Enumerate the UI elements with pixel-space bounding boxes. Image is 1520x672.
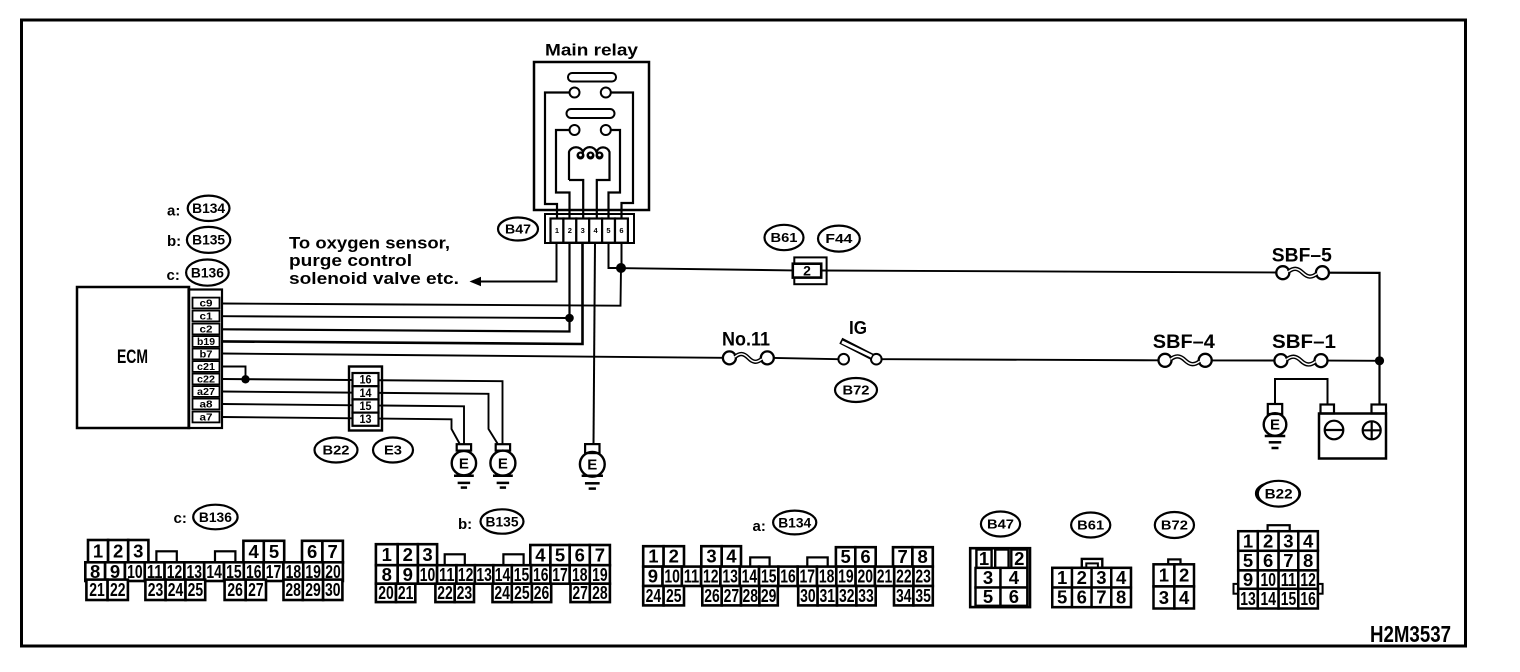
- svg-text:13: 13: [1240, 588, 1256, 609]
- svg-text:10: 10: [127, 561, 143, 582]
- svg-text:B61: B61: [1077, 517, 1104, 532]
- svg-text:E3: E3: [384, 442, 402, 457]
- svg-text:20: 20: [857, 566, 873, 587]
- svg-text:2: 2: [113, 541, 123, 562]
- connector B72 pinout oval: [1155, 512, 1194, 538]
- svg-text:solenoid valve etc.: solenoid valve etc.: [289, 269, 459, 288]
- svg-text:25: 25: [188, 579, 204, 600]
- svg-text:24: 24: [646, 585, 662, 606]
- svg-text:28: 28: [285, 579, 301, 600]
- svg-text:22: 22: [896, 566, 912, 587]
- connector B22 pinout tab: [1268, 525, 1290, 531]
- svg-text:6: 6: [619, 226, 623, 235]
- svg-text:35: 35: [915, 585, 931, 606]
- connector B22/E3 outer box: [349, 367, 382, 431]
- relay internal wire contact2-left to pin2: [556, 130, 570, 219]
- ground E at battery: [1268, 404, 1282, 414]
- svg-text:14: 14: [1260, 588, 1276, 609]
- svg-text:6: 6: [575, 544, 585, 565]
- svg-text:3: 3: [581, 226, 585, 235]
- connector B61 pinout row1 cells 1-4: [1052, 568, 1072, 588]
- fuse SBF-5: [1276, 266, 1289, 279]
- connector b B135 pinout top row cells 4-7: [530, 545, 550, 565]
- connector B22 pinout grid cells 1-16: [1238, 531, 1258, 551]
- ground E under main relay: [585, 444, 599, 453]
- svg-text:1: 1: [1159, 565, 1169, 586]
- svg-text:26: 26: [704, 585, 720, 606]
- svg-text:c21: c21: [197, 362, 215, 373]
- svg-text:Main relay: Main relay: [545, 42, 639, 60]
- wire SBF-1 to battery junction: [1328, 360, 1380, 362]
- svg-text:3: 3: [133, 541, 143, 562]
- connector B22/E3 pin 16: [353, 373, 379, 386]
- svg-text:1: 1: [93, 541, 103, 562]
- junction dot c21-c22: [241, 375, 249, 383]
- ground E left (E3): [457, 444, 471, 450]
- connector c B136 pinout top row cells 4-5: [243, 541, 263, 563]
- svg-text:4: 4: [1009, 567, 1020, 588]
- svg-text:SBF–5: SBF–5: [1272, 245, 1332, 267]
- wire SBF-5 to battery plus: [1329, 273, 1380, 405]
- connector a B134 pinout top row cells 3-4: [701, 546, 721, 566]
- svg-text:6: 6: [1077, 587, 1087, 608]
- svg-text:21: 21: [89, 579, 105, 600]
- connector a B134 pinout bottom row cells 26-29: [702, 586, 721, 605]
- svg-text:33: 33: [858, 585, 874, 606]
- svg-text:2: 2: [1077, 567, 1087, 588]
- svg-text:22: 22: [437, 582, 453, 603]
- svg-text:4: 4: [726, 546, 737, 567]
- oval F44: [818, 226, 860, 252]
- battery terminal tabs: [1321, 405, 1335, 414]
- svg-text:3: 3: [706, 546, 716, 567]
- relay MR main relay box: [534, 62, 649, 210]
- svg-text:18: 18: [819, 566, 835, 587]
- svg-text:4: 4: [1303, 530, 1314, 551]
- svg-text:15: 15: [1281, 588, 1297, 609]
- svg-text:23: 23: [457, 582, 473, 603]
- svg-text:8: 8: [1303, 550, 1313, 571]
- connector a B134 pinout middle row cells 9-23: [643, 567, 662, 586]
- wire B47 pin4 down to ground: [594, 243, 596, 444]
- svg-text:27: 27: [248, 579, 264, 600]
- connector B22 pinout side tabs: [1234, 584, 1239, 594]
- ground E right (E3): [496, 444, 510, 450]
- junction dot pin2-c1: [565, 314, 574, 323]
- ECM pin c22: [193, 374, 220, 385]
- wire junction down to ECM c9 row: [222, 268, 621, 306]
- oval E3 inline: [373, 438, 413, 463]
- svg-text:IG: IG: [849, 317, 867, 338]
- svg-text:a8: a8: [200, 400, 214, 411]
- oval B61: [765, 225, 804, 250]
- relay contact bar 2: [567, 109, 615, 118]
- svg-text:22: 22: [110, 579, 126, 600]
- svg-text:26: 26: [227, 579, 243, 600]
- svg-text:4: 4: [1116, 567, 1127, 588]
- connector B61 pinout oval: [1071, 513, 1110, 538]
- svg-text:2: 2: [1179, 565, 1189, 586]
- relay internal wire contact1-left to pin1: [545, 93, 570, 219]
- svg-text:7: 7: [595, 544, 605, 565]
- connector a B134 tab 2: [807, 557, 827, 566]
- svg-text:32: 32: [839, 585, 855, 606]
- svg-text:29: 29: [305, 579, 321, 600]
- relay contact 1 terminal circles: [570, 88, 580, 98]
- connector b B135 tab 1: [445, 554, 465, 565]
- svg-text:14: 14: [742, 566, 758, 587]
- svg-text:To oxygen sensor,: To oxygen sensor,: [289, 234, 450, 253]
- wire ECM c21 jumper to c22: [222, 367, 246, 378]
- wire junction to fuse F44: [626, 268, 793, 270]
- relay coil winding: [569, 147, 610, 218]
- svg-text:14: 14: [360, 388, 373, 400]
- svg-text:13: 13: [476, 564, 492, 585]
- connector B47 oval label: [498, 218, 538, 241]
- wire No.11 to IG switch: [774, 358, 838, 359]
- svg-text:2: 2: [1014, 548, 1024, 569]
- svg-text:B47: B47: [505, 221, 531, 236]
- fuse F44 number 2 box: [794, 257, 826, 284]
- connector a B134 pinout top row cells 5-6: [836, 547, 855, 566]
- wire B47 pin1 to oxygen sensor branch: [479, 243, 557, 282]
- svg-text:B61: B61: [771, 230, 798, 245]
- connector B72 pinout cells 1-4: [1154, 564, 1175, 586]
- battery plus terminal: [1363, 421, 1381, 439]
- svg-text:13: 13: [722, 566, 738, 587]
- svg-text:3: 3: [422, 544, 432, 565]
- ECM pin a27: [193, 386, 220, 397]
- svg-text:b19: b19: [197, 337, 215, 348]
- fuse SBF-1: [1274, 354, 1287, 367]
- svg-text:3: 3: [1096, 567, 1106, 588]
- svg-text:7: 7: [1096, 587, 1106, 608]
- wire B47 pin2 down to ECM c1/c2: [222, 243, 570, 332]
- ECM pin b7: [193, 349, 220, 360]
- ECM pin c21: [193, 361, 220, 372]
- connector B47 strip cells: [551, 219, 564, 243]
- connector B22/E3 pin 14: [353, 386, 379, 399]
- svg-text:28: 28: [742, 585, 758, 606]
- switch IG contacts: [838, 354, 849, 365]
- connector a B134 pinout bottom row cells 30-33: [798, 586, 817, 605]
- wire B47 pin6 to junction: [621, 243, 623, 264]
- wire SBF-4 to SBF-1: [1212, 359, 1274, 361]
- svg-text:12: 12: [1300, 569, 1316, 590]
- connector B47 pinout row1 cells: [976, 550, 991, 568]
- wire fuse F44 to SBF-5: [821, 271, 1276, 273]
- svg-text:9: 9: [1243, 569, 1253, 590]
- svg-text:B135: B135: [192, 232, 225, 248]
- wire ECM c22 row to right ground: [222, 379, 503, 444]
- svg-text:B47: B47: [987, 516, 1014, 531]
- svg-text:3: 3: [1283, 530, 1293, 551]
- svg-text:1: 1: [979, 548, 989, 569]
- svg-text:5: 5: [1243, 550, 1253, 571]
- svg-text:26: 26: [534, 582, 550, 603]
- svg-text:c1: c1: [200, 312, 214, 323]
- svg-text:1: 1: [1057, 567, 1067, 588]
- svg-text:6: 6: [1263, 550, 1273, 571]
- svg-text:15: 15: [761, 566, 777, 587]
- junction dot main relay feed: [616, 263, 626, 273]
- oval B22 inline: [315, 438, 358, 463]
- wire ECM a8 row to left ground: [222, 404, 464, 444]
- svg-text:5: 5: [555, 544, 565, 565]
- svg-text:30: 30: [800, 585, 816, 606]
- connector a B134 tab 1: [750, 557, 769, 566]
- connector c B136 tab 1: [156, 551, 176, 562]
- connector b B135 tab 2: [503, 554, 523, 565]
- svg-text:1: 1: [382, 544, 392, 565]
- relay contact 2 terminal circles: [570, 125, 580, 135]
- svg-text:B72: B72: [1161, 517, 1188, 532]
- connector B61 pinout outer box: [1052, 568, 1131, 607]
- svg-text:17: 17: [266, 561, 282, 582]
- svg-text:1: 1: [648, 546, 658, 567]
- svg-text:c:: c:: [174, 510, 187, 527]
- connector c B136 tab 2: [215, 551, 235, 562]
- svg-text:31: 31: [820, 585, 836, 606]
- connector c B136 pinout top row cells 1-3: [88, 540, 108, 563]
- svg-text:6: 6: [1009, 586, 1019, 607]
- connector c B136 pinout middle row cells 8-20: [85, 562, 105, 581]
- svg-text:ECM: ECM: [117, 347, 148, 368]
- wire ECM a7 row to left ground: [222, 417, 460, 444]
- connector a B134 pinout top row cells 7-8: [893, 547, 912, 566]
- svg-text:25: 25: [514, 582, 530, 603]
- connector b B135 pinout bottom row cells 24-26: [493, 584, 512, 602]
- svg-text:B136: B136: [191, 264, 224, 280]
- connector b B135 pinout bottom row cells 27-28: [571, 584, 590, 602]
- svg-text:6: 6: [860, 546, 870, 567]
- ECM pin c1: [193, 311, 220, 322]
- svg-text:24: 24: [494, 582, 510, 603]
- svg-text:E: E: [498, 455, 508, 472]
- connector B61 pinout tab: [1082, 559, 1103, 569]
- svg-text:4: 4: [535, 544, 546, 565]
- svg-text:7: 7: [1283, 550, 1293, 571]
- ECM pin c2: [193, 324, 220, 335]
- connector B22/E3 pin 15: [353, 399, 379, 412]
- svg-text:23: 23: [148, 579, 164, 600]
- svg-text:17: 17: [800, 566, 816, 587]
- connector a B134 pinout bottom row cells 24-25: [643, 586, 663, 605]
- junction dot battery feed: [1375, 356, 1384, 365]
- svg-text:2: 2: [1263, 530, 1273, 551]
- connector b B135 pinout bottom row cells 22-23: [435, 584, 454, 602]
- svg-text:E: E: [587, 457, 597, 474]
- svg-text:F44: F44: [825, 231, 853, 246]
- svg-text:11: 11: [684, 566, 700, 587]
- svg-text:B134: B134: [778, 514, 811, 530]
- wire ECM c1 row: [222, 316, 566, 318]
- wire battery minus to ground E: [1275, 379, 1328, 405]
- wire B47 pin5 to junction: [609, 243, 618, 268]
- svg-text:B22: B22: [323, 442, 350, 457]
- svg-text:a27: a27: [197, 387, 215, 398]
- svg-text:6: 6: [307, 541, 317, 562]
- svg-text:E: E: [459, 455, 469, 472]
- wire IG to SBF-4: [882, 359, 1159, 360]
- connector b B135 pinout bottom row cells 20-21: [376, 584, 396, 602]
- connector a B134 pinout bottom row cells 34-35: [894, 586, 913, 605]
- svg-text:20: 20: [378, 582, 394, 603]
- battery body: [1319, 414, 1386, 459]
- svg-text:3: 3: [983, 567, 993, 588]
- fuse No.11: [723, 351, 736, 364]
- svg-text:28: 28: [592, 582, 608, 603]
- connector b B135 pinout middle row cells 8-19: [376, 565, 398, 584]
- svg-text:12: 12: [703, 566, 719, 587]
- connector c B136 pinout top row cells 6-7: [302, 541, 322, 563]
- connector B61 pinout row2 cells 5-8: [1052, 588, 1072, 608]
- connector c B136 pinout bottom row cells 26-27: [225, 580, 246, 600]
- svg-text:13: 13: [360, 414, 372, 426]
- svg-text:16: 16: [780, 566, 796, 587]
- svg-text:B136: B136: [199, 509, 232, 525]
- svg-text:a7: a7: [200, 413, 214, 424]
- svg-text:2: 2: [403, 544, 413, 565]
- svg-text:2: 2: [568, 226, 572, 235]
- svg-text:16: 16: [360, 375, 372, 387]
- svg-text:b7: b7: [200, 350, 213, 361]
- svg-text:a:: a:: [167, 203, 180, 220]
- svg-text:34: 34: [896, 585, 912, 606]
- svg-text:5: 5: [606, 226, 610, 235]
- svg-text:B22: B22: [1265, 486, 1293, 501]
- svg-text:25: 25: [666, 585, 682, 606]
- svg-text:E: E: [1270, 417, 1280, 434]
- svg-text:8: 8: [1116, 587, 1126, 608]
- svg-text:H2M3537: H2M3537: [1370, 621, 1451, 647]
- svg-text:c:: c:: [167, 267, 180, 284]
- connector B47 pinout row3 cells: [976, 588, 1001, 606]
- ECM pin b19: [193, 336, 220, 347]
- arrowhead to oxygen sensor: [470, 277, 482, 286]
- svg-text:c2: c2: [200, 325, 214, 336]
- connector B47 pinout outer box: [970, 548, 1030, 607]
- svg-text:24: 24: [168, 579, 184, 600]
- svg-text:11: 11: [1281, 569, 1297, 590]
- relay internal wire contact1-right to pin6: [611, 93, 633, 219]
- relay coil loop blobs: [577, 152, 585, 160]
- svg-text:5: 5: [269, 541, 279, 562]
- svg-text:7: 7: [328, 541, 338, 562]
- wire ECM b7 row to fuse No.11: [222, 354, 723, 358]
- svg-text:10: 10: [420, 564, 436, 585]
- svg-text:SBF–4: SBF–4: [1153, 331, 1215, 353]
- connector B22/E3 pin 13: [353, 413, 379, 426]
- svg-text:23: 23: [915, 566, 931, 587]
- svg-text:9: 9: [648, 566, 658, 587]
- wire ECM a27 row to right ground: [222, 392, 498, 444]
- ECM box: [77, 287, 189, 428]
- svg-text:4: 4: [248, 541, 259, 562]
- battery minus terminal: [1325, 421, 1344, 440]
- svg-text:10: 10: [1260, 569, 1276, 590]
- svg-text:No.11: No.11: [722, 329, 770, 351]
- svg-text:2: 2: [803, 262, 811, 278]
- oval B22 at battery ground: [1256, 482, 1300, 506]
- svg-text:3: 3: [1159, 587, 1169, 608]
- svg-text:27: 27: [724, 585, 740, 606]
- connector B47 pinout oval: [981, 512, 1020, 537]
- relay internal wire contact2-right to pin5: [609, 130, 621, 219]
- svg-text:8: 8: [917, 546, 927, 567]
- svg-text:21: 21: [398, 582, 414, 603]
- svg-text:5: 5: [840, 546, 850, 567]
- ECM pin c9: [193, 298, 220, 309]
- connector B22 pinout oval: [1258, 481, 1300, 507]
- svg-text:14: 14: [206, 561, 222, 582]
- svg-text:1: 1: [1243, 530, 1253, 551]
- svg-text:21: 21: [877, 566, 893, 587]
- svg-text:27: 27: [572, 582, 588, 603]
- svg-text:B135: B135: [486, 513, 519, 529]
- svg-text:c9: c9: [200, 299, 214, 310]
- svg-text:4: 4: [1179, 587, 1190, 608]
- svg-text:10: 10: [664, 566, 680, 587]
- connector c B136 pinout bottom row cells 28-30: [284, 580, 303, 600]
- svg-text:purge control: purge control: [289, 251, 412, 270]
- svg-text:1: 1: [555, 226, 559, 235]
- svg-text:2: 2: [669, 546, 679, 567]
- svg-text:15: 15: [360, 401, 373, 413]
- svg-text:16: 16: [1300, 588, 1316, 609]
- svg-text:17: 17: [552, 564, 568, 585]
- ECM pin a8: [193, 399, 220, 410]
- connector b B135 pinout top row cells 1-3: [376, 544, 398, 565]
- ECM pin a7: [193, 412, 220, 423]
- svg-text:B72: B72: [843, 382, 870, 397]
- connector B47 pinout row2 cells: [976, 568, 1001, 588]
- fuse SBF-4: [1159, 354, 1172, 367]
- connector c B136 pinout bottom row cells 23-25: [145, 580, 165, 600]
- svg-text:b:: b:: [167, 233, 181, 250]
- svg-text:a:: a:: [753, 518, 766, 535]
- svg-text:5: 5: [1057, 587, 1067, 608]
- oval B72 at IG switch: [835, 378, 877, 402]
- switch IG blade: [841, 341, 873, 358]
- connector a B134 pinout top row cells 1-2: [643, 546, 663, 566]
- connector c B136 pinout bottom row cells 21-22: [86, 580, 107, 600]
- svg-text:29: 29: [761, 585, 777, 606]
- connector B47 strip outer box: [545, 214, 634, 243]
- svg-text:19: 19: [838, 566, 854, 587]
- svg-text:B134: B134: [192, 200, 225, 216]
- svg-text:7: 7: [898, 546, 908, 567]
- svg-text:b:: b:: [458, 516, 472, 533]
- svg-text:30: 30: [325, 579, 341, 600]
- svg-text:SBF–1: SBF–1: [1272, 331, 1336, 353]
- svg-text:5: 5: [983, 586, 993, 607]
- svg-text:c22: c22: [197, 375, 215, 386]
- connector B72 pinout tab: [1168, 559, 1180, 565]
- ECM connector pin column: [189, 290, 223, 429]
- relay contact bar 1: [568, 73, 616, 82]
- wire B47 pin3 down to ECM b19: [222, 243, 583, 344]
